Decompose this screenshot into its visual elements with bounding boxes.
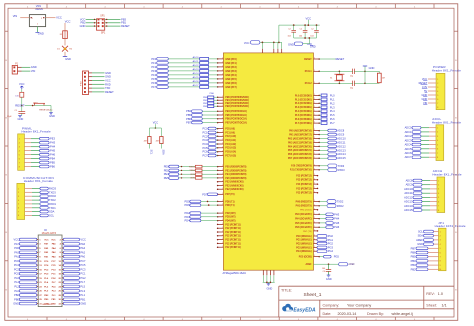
- svg-text:PE2 (AIN0/XCK0): PE2 (AIN0/XCK0): [225, 184, 243, 187]
- svg-text:SCL: SCL: [149, 150, 152, 155]
- svg-text:1: 1: [222, 82, 223, 84]
- svg-text:PC5: PC5: [80, 263, 86, 267]
- svg-text:PL5 (OC55/DIG): PL5 (OC55/DIG): [295, 115, 312, 117]
- svg-text:1: 1: [314, 149, 315, 151]
- svg-text:PL4: PL4: [14, 280, 19, 284]
- svg-text:PD7 (T0): PD7 (T0): [225, 194, 234, 196]
- svg-text:1: 1: [314, 106, 315, 108]
- svg-text:ADC11: ADC11: [404, 191, 413, 195]
- svg-text:PD6: PD6: [185, 203, 191, 207]
- svg-text:1: 1: [222, 204, 223, 206]
- svg-text:1: 1: [222, 86, 223, 88]
- svg-text:PH2 (XCK2): PH2 (XCK2): [300, 210, 312, 212]
- svg-text:1: 1: [314, 178, 315, 180]
- svg-text:ATMega2560-16AU: ATMega2560-16AU: [223, 271, 247, 275]
- svg-text:ADC3: ADC3: [405, 138, 412, 142]
- svg-text:XTAL2: XTAL2: [305, 82, 313, 85]
- svg-text:1: 1: [222, 58, 223, 60]
- svg-text:GND GND: GND GND: [42, 304, 52, 306]
- svg-text:ADC12: ADC12: [404, 195, 413, 199]
- svg-text:PG0 (WR/ALE): PG0 (WR/ALE): [296, 235, 312, 238]
- svg-text:C2: C2: [311, 28, 313, 30]
- svg-text:PG1 (WR/ALE): PG1 (WR/ALE): [296, 239, 312, 242]
- svg-text:PJ2 (PCINT11): PJ2 (PCINT11): [225, 236, 241, 238]
- svg-text:GND: GND: [80, 24, 86, 28]
- svg-text:PL0: PL0: [330, 93, 335, 97]
- svg-text:GND (PF4): GND (PF4): [225, 74, 237, 77]
- svg-text:GND: GND: [288, 42, 294, 46]
- svg-text:PG3: PG3: [328, 245, 334, 249]
- svg-text:1: 1: [222, 238, 223, 240]
- svg-text:4: 4: [438, 193, 439, 195]
- svg-text:4: 4: [19, 150, 20, 152]
- svg-text:1: 1: [222, 154, 223, 156]
- svg-text:VIN: VIN: [13, 14, 18, 18]
- svg-text:PE3: PE3: [50, 137, 55, 141]
- svg-text:PE2 (AIN0/XCK0): PE2 (AIN0/XCK0): [225, 181, 243, 184]
- svg-text:ADC15: ADC15: [404, 208, 413, 212]
- svg-text:1: 1: [281, 51, 282, 53]
- svg-text:PL3: PL3: [80, 289, 85, 293]
- svg-text:PB4: PB4: [411, 259, 416, 263]
- svg-text:RXD3: RXD3: [338, 168, 345, 172]
- svg-text:ADC9: ADC9: [337, 133, 344, 137]
- svg-text:5: 5: [437, 144, 438, 146]
- svg-text:PC3: PC3: [202, 138, 208, 142]
- svg-text:PC0: PC0: [202, 127, 208, 131]
- svg-text:PC3: PC3: [80, 267, 86, 271]
- svg-text:PC0: PC0: [14, 272, 20, 276]
- svg-text:PH5 (OC4A/PC): PH5 (OC4A/PC): [295, 222, 312, 225]
- svg-text:1M: 1M: [382, 78, 385, 80]
- svg-text:GND: GND: [49, 114, 55, 118]
- svg-text:PJ2 (PCINT11): PJ2 (PCINT11): [225, 224, 241, 226]
- svg-text:PE5: PE5: [164, 176, 169, 180]
- svg-text:2: 2: [18, 192, 19, 194]
- svg-text:PC5: PC5: [202, 146, 208, 150]
- svg-text:PJ1 (TXD3/PCINT10): PJ1 (TXD3/PCINT10): [290, 170, 312, 172]
- svg-text:PB3: PB3: [411, 263, 416, 267]
- svg-text:PG5 (OC0B): PG5 (OC0B): [299, 257, 312, 259]
- svg-text:EasyEDA: EasyEDA: [293, 308, 316, 314]
- svg-text:1: 1: [314, 94, 315, 96]
- svg-text:1: 1: [262, 51, 263, 53]
- svg-text:1: 1: [314, 222, 315, 224]
- svg-text:GND: GND: [369, 66, 375, 70]
- svg-text:PL4 (OC54/DIG): PL4 (OC54/DIG): [295, 110, 312, 113]
- svg-text:PD4: PD4: [185, 219, 191, 223]
- svg-text:5: 5: [440, 248, 441, 250]
- svg-text:PK2 (ADC10/PCINT18): PK2 (ADC10/PCINT18): [288, 137, 312, 140]
- svg-text:1: 1: [314, 157, 315, 159]
- svg-text:PK7 (ADC15/PCINT23): PK7 (ADC15/PCINT23): [288, 157, 312, 160]
- svg-text:PL7: PL7: [330, 121, 335, 125]
- svg-text:1: 1: [222, 99, 223, 101]
- svg-text:ADC11: ADC11: [337, 140, 346, 144]
- svg-text:7: 7: [437, 153, 438, 155]
- svg-text:Header 8X1_Female: Header 8X1_Female: [432, 120, 461, 124]
- svg-text:ADC13: ADC13: [337, 148, 346, 152]
- svg-text:PA1: PA1: [14, 255, 19, 259]
- svg-text:PH5: PH5: [50, 149, 56, 153]
- svg-text:1: 1: [314, 208, 315, 210]
- svg-text:ADC2: ADC2: [193, 64, 200, 67]
- svg-text:1: 1: [222, 215, 223, 217]
- svg-text:7: 7: [440, 257, 441, 259]
- svg-text:3: 3: [18, 196, 19, 198]
- svg-text:ADC7: ADC7: [193, 84, 200, 87]
- svg-text:PD4 (INT): PD4 (INT): [225, 220, 235, 223]
- svg-text:2: 2: [437, 132, 438, 134]
- svg-text:104: 104: [299, 36, 302, 38]
- svg-text:PE2 (AIN0/XCK0): PE2 (AIN0/XCK0): [225, 188, 243, 191]
- svg-text:6: 6: [438, 201, 439, 203]
- svg-text:1: 1: [314, 58, 315, 60]
- svg-text:22p: 22p: [350, 75, 353, 77]
- svg-text:PH3: PH3: [50, 141, 56, 145]
- svg-text:TXD2: TXD2: [49, 198, 56, 202]
- svg-text:PL2 (OC52/DIG): PL2 (OC52/DIG): [295, 103, 312, 105]
- svg-text:PL0: PL0: [14, 289, 19, 293]
- svg-text:1: 1: [222, 188, 223, 190]
- svg-text:PA7: PA7: [14, 242, 19, 246]
- svg-text:PC6 (A14): PC6 (A14): [225, 151, 236, 154]
- svg-text:VCC: VCC: [80, 238, 86, 242]
- svg-text:PJ3 (PCINT12): PJ3 (PCINT12): [296, 176, 312, 178]
- svg-text:PD3 (INT): PD3 (INT): [225, 217, 235, 219]
- svg-text:PK0 (ADC8/PCINT16): PK0 (ADC8/PCINT16): [289, 130, 312, 133]
- svg-text:1: 1: [222, 74, 223, 76]
- svg-text:SDA: SDA: [161, 150, 164, 155]
- svg-text:ADC10: ADC10: [337, 137, 346, 141]
- svg-text:PH5: PH5: [334, 221, 340, 225]
- svg-text:GND: GND: [31, 65, 37, 69]
- svg-text:PG3 (WR/ALE): PG3 (WR/ALE): [296, 246, 312, 249]
- svg-text:1: 1: [222, 146, 223, 148]
- svg-text:VCC: VCC: [19, 82, 25, 86]
- svg-text:1: 1: [222, 139, 223, 141]
- svg-text:8: 8: [18, 215, 19, 217]
- svg-text:PB6 (PCINT6/OC2A): PB6 (PCINT6/OC2A): [225, 118, 247, 121]
- svg-text:PD2: PD2: [185, 211, 191, 215]
- svg-text:PC7 (A15): PC7 (A15): [225, 154, 236, 157]
- svg-text:PJ3 (PCINT12): PJ3 (PCINT12): [296, 180, 312, 182]
- svg-text:RESET: RESET: [336, 57, 345, 61]
- svg-text:1: 1: [222, 212, 223, 214]
- svg-text:8: 8: [438, 210, 439, 212]
- svg-text:1: 1: [222, 110, 223, 112]
- svg-text:Your Company: Your Company: [347, 304, 371, 308]
- svg-text:PB3 (PCINT3/SS/SCK): PB3 (PCINT3/SS/SCK): [225, 106, 249, 108]
- svg-text:1: 1: [222, 173, 223, 175]
- svg-text:1: 1: [314, 174, 315, 176]
- svg-text:4: 4: [437, 140, 438, 142]
- svg-text:PK4 (ADC12/PCINT20): PK4 (ADC12/PCINT20): [288, 145, 312, 148]
- svg-text:1: 1: [222, 114, 223, 116]
- svg-text:1: 1: [314, 242, 315, 244]
- svg-text:1: 1: [222, 135, 223, 137]
- svg-text:ADC14: ADC14: [404, 204, 413, 208]
- svg-text:PC6: PC6: [14, 259, 20, 263]
- svg-text:C2: C2: [300, 28, 302, 30]
- svg-text:2: 2: [37, 24, 38, 26]
- svg-text:VCC: VCC: [80, 17, 86, 21]
- svg-text:GND: GND: [105, 75, 111, 79]
- svg-text:ADC0: ADC0: [193, 56, 200, 59]
- svg-text:PL4: PL4: [330, 109, 335, 113]
- svg-text:1: 1: [314, 230, 315, 232]
- svg-text:1: 1: [314, 145, 315, 147]
- svg-text:PL7: PL7: [80, 280, 85, 284]
- svg-text:PF7: PF7: [151, 85, 156, 89]
- svg-text:78M05: 78M05: [35, 7, 44, 11]
- svg-text:PG1: PG1: [328, 238, 334, 242]
- svg-text:PC2: PC2: [14, 267, 20, 271]
- svg-text:RESET: RESET: [121, 24, 130, 28]
- svg-text:1: 1: [314, 217, 315, 219]
- svg-text:PK5 (ADC13/PCINT21): PK5 (ADC13/PCINT21): [288, 149, 312, 152]
- svg-text:ADC8: ADC8: [337, 129, 344, 133]
- svg-text:ADC9: ADC9: [406, 183, 413, 187]
- svg-text:TXD0: TXD0: [189, 170, 195, 172]
- svg-text:PD7: PD7: [202, 192, 208, 196]
- svg-text:3: 3: [438, 189, 439, 191]
- svg-text:PL7 (OC57/DIG): PL7 (OC57/DIG): [295, 123, 312, 125]
- svg-text:1: 1: [222, 193, 223, 195]
- svg-text:1: 1: [314, 246, 315, 248]
- svg-text:PJ0 (TXD3/PCINT9): PJ0 (TXD3/PCINT9): [291, 166, 312, 168]
- svg-text:GND: GND: [13, 302, 19, 306]
- svg-text:SP1: SP1: [100, 16, 105, 18]
- svg-text:4: 4: [437, 91, 438, 93]
- svg-text:1: 1: [222, 246, 223, 248]
- svg-text:PL5: PL5: [80, 285, 85, 289]
- svg-text:ADC3: ADC3: [193, 68, 200, 71]
- svg-text:PH6 (OC4A/PC): PH6 (OC4A/PC): [295, 226, 312, 229]
- svg-text:PA3: PA3: [14, 250, 19, 254]
- svg-text:1: 1: [222, 180, 223, 182]
- svg-text:GND (PF1): GND (PF1): [225, 63, 237, 65]
- svg-text:RXD: RXD: [105, 82, 111, 86]
- svg-text:AREF: AREF: [305, 263, 312, 266]
- svg-text:1: 1: [222, 96, 223, 98]
- svg-text:1: 1: [222, 127, 223, 129]
- svg-text:GND: GND: [18, 117, 24, 121]
- svg-text:GND (PF2): GND (PF2): [225, 67, 237, 69]
- svg-text:6: 6: [437, 99, 438, 101]
- svg-text:7: 7: [19, 162, 20, 164]
- svg-text:1: 1: [438, 180, 439, 182]
- svg-text:INT5: INT5: [190, 178, 196, 180]
- svg-text:1: 1: [222, 231, 223, 233]
- svg-text:2: 2: [437, 83, 438, 85]
- svg-text:PL1: PL1: [80, 293, 85, 297]
- svg-text:PD2 (INT): PD2 (INT): [225, 213, 235, 215]
- svg-text:ADC1: ADC1: [405, 130, 412, 134]
- svg-text:SDA: SDA: [418, 234, 424, 238]
- svg-text:PG4: PG4: [328, 249, 334, 253]
- svg-text:VCC: VCC: [56, 16, 62, 20]
- svg-text:PB2 (PCINT2/SS/SCK): PB2 (PCINT2/SS/SCK): [225, 103, 249, 105]
- svg-text:PC1: PC1: [80, 272, 86, 276]
- svg-text:GND (PF7): GND (PF7): [225, 87, 237, 89]
- svg-text:PB5: PB5: [411, 255, 416, 259]
- svg-text:PF1: PF1: [151, 61, 156, 65]
- svg-text:PB2: PB2: [411, 267, 416, 271]
- svg-text:2: 2: [440, 236, 441, 238]
- svg-text:PL2: PL2: [14, 285, 19, 289]
- svg-text:PJ2 (PCINT11): PJ2 (PCINT11): [225, 240, 241, 242]
- svg-text:1: 1: [222, 70, 223, 72]
- svg-text:GND: GND: [65, 57, 71, 61]
- svg-text:PC3 (A11): PC3 (A11): [225, 139, 236, 142]
- svg-text:PB7: PB7: [411, 246, 416, 250]
- svg-text:1: 1: [314, 82, 315, 84]
- svg-text:PL3 (OC53/DIG): PL3 (OC53/DIG): [295, 107, 312, 109]
- svg-text:Company:: Company:: [323, 304, 340, 308]
- svg-text:5: 5: [437, 95, 438, 97]
- svg-text:PF2: PF2: [151, 65, 156, 69]
- svg-text:GND (PF5): GND (PF5): [225, 79, 237, 81]
- svg-text:2: 2: [19, 143, 20, 145]
- svg-text:VIN: VIN: [31, 69, 35, 73]
- svg-text:Date:: Date:: [323, 312, 332, 316]
- svg-text:22p: 22p: [350, 87, 353, 89]
- svg-text:PJ3 (PCINT12): PJ3 (PCINT12): [296, 188, 312, 190]
- svg-text:ADC14: ADC14: [337, 152, 346, 156]
- svg-text:10: 10: [439, 269, 441, 271]
- svg-text:TXD1: TXD1: [49, 206, 56, 210]
- svg-text:SCL: SCL: [418, 230, 424, 234]
- svg-text:5: 5: [438, 197, 439, 199]
- svg-text:1: 1: [314, 114, 315, 116]
- svg-text:PG2: PG2: [328, 242, 334, 246]
- svg-text:2020-03-14: 2020-03-14: [338, 312, 357, 316]
- svg-text:PB7: PB7: [186, 121, 191, 125]
- svg-text:SDA: SDA: [49, 210, 55, 214]
- svg-text:GND: GND: [267, 287, 273, 291]
- svg-text:PE1: PE1: [164, 168, 169, 172]
- svg-text:3: 3: [440, 240, 441, 242]
- svg-text:1: 1: [277, 51, 278, 53]
- svg-text:1: 1: [222, 227, 223, 229]
- svg-text:Header 8X1_Female: Header 8X1_Female: [22, 130, 51, 134]
- svg-text:PB5 (PCINT5/OC2A): PB5 (PCINT5/OC2A): [225, 114, 247, 117]
- svg-text:PD6 (T1): PD6 (T1): [225, 205, 234, 207]
- svg-text:1: 1: [314, 200, 315, 202]
- svg-text:RXD1: RXD1: [49, 202, 56, 206]
- svg-text:PB4: PB4: [186, 109, 191, 113]
- svg-text:1: 1: [222, 105, 223, 107]
- svg-text:Drawn By:: Drawn By:: [367, 312, 384, 316]
- svg-text:1: 1: [314, 153, 315, 155]
- svg-text:1: 1: [222, 121, 223, 123]
- svg-text:PB1 (PCINT1/SS/SCK): PB1 (PCINT1/SS/SCK): [225, 100, 249, 102]
- svg-text:PD5: PD5: [185, 199, 191, 203]
- svg-text:PB6: PB6: [186, 117, 191, 121]
- svg-text:PE0 (RXD0/PCINT8): PE0 (RXD0/PCINT8): [225, 167, 246, 169]
- svg-text:PB3: PB3: [121, 17, 126, 21]
- svg-text:SP1: SP1: [101, 33, 106, 35]
- svg-text:PC4: PC4: [202, 142, 208, 146]
- svg-text:PD5 (T1): PD5 (T1): [225, 201, 234, 203]
- svg-text:PK6 (ADC14/PCINT22): PK6 (ADC14/PCINT22): [288, 153, 312, 156]
- svg-text:PL5: PL5: [330, 113, 335, 117]
- svg-text:PC6: PC6: [202, 150, 208, 154]
- svg-text:PG4 (WR/ALE): PG4 (WR/ALE): [296, 250, 312, 253]
- svg-text:RXD2: RXD2: [49, 194, 56, 198]
- svg-text:ADC0: ADC0: [405, 126, 412, 130]
- svg-text:ADC15: ADC15: [337, 156, 346, 160]
- svg-text:1: 1: [222, 219, 223, 221]
- svg-text:5: 5: [19, 154, 20, 156]
- svg-text:PB5: PB5: [186, 113, 191, 117]
- svg-text:1: 1: [222, 102, 223, 104]
- svg-text:PH6: PH6: [334, 225, 340, 229]
- svg-text:1: 1: [314, 137, 315, 139]
- svg-text:ADC8: ADC8: [406, 179, 413, 183]
- svg-text:104: 104: [310, 36, 313, 38]
- svg-text:1: 1: [314, 183, 315, 185]
- svg-text:Header 10X1_Female: Header 10X1_Female: [435, 224, 466, 228]
- svg-text:TXD2: TXD2: [337, 200, 344, 204]
- svg-text:4: 4: [440, 244, 441, 246]
- svg-text:PB6: PB6: [50, 165, 55, 169]
- svg-text:GND (PF3): GND (PF3): [225, 71, 237, 73]
- svg-text:1: 1: [222, 78, 223, 80]
- svg-text:PA5: PA5: [14, 246, 19, 250]
- svg-text:PH4: PH4: [334, 217, 340, 221]
- svg-text:104: 104: [288, 36, 291, 38]
- svg-text:ADC4: ADC4: [193, 72, 200, 75]
- svg-text:7: 7: [438, 206, 439, 208]
- svg-text:PH7 (T4): PH7 (T4): [303, 231, 312, 233]
- svg-text:3: 3: [19, 147, 20, 149]
- svg-text:PH4: PH4: [50, 145, 56, 149]
- svg-text:7: 7: [18, 211, 19, 213]
- svg-text:PE4 (RXD0/PCINT8): PE4 (RXD0/PCINT8): [225, 173, 246, 176]
- svg-text:1: 1: [314, 191, 315, 193]
- svg-text:INT4: INT4: [190, 174, 196, 176]
- svg-text:PC1: PC1: [202, 130, 208, 134]
- svg-text:RXD0: RXD0: [189, 166, 196, 168]
- svg-text:RXD3: RXD3: [49, 187, 56, 191]
- svg-text:PF3: PF3: [151, 69, 156, 73]
- svg-text:REV:: REV:: [426, 292, 434, 296]
- svg-text:VCC: VCC: [305, 16, 311, 20]
- svg-text:PL3: PL3: [330, 105, 335, 109]
- svg-text:PC0 (A8): PC0 (A8): [225, 128, 235, 131]
- svg-text:1: 1: [314, 250, 315, 252]
- svg-text:1: 1: [314, 255, 315, 257]
- svg-text:TXD3: TXD3: [49, 190, 56, 194]
- svg-text:PK3 (ADC11/PCINT19): PK3 (ADC11/PCINT19): [288, 141, 312, 144]
- svg-text:GND (PF0): GND (PF0): [225, 59, 237, 61]
- svg-text:VCC: VCC: [153, 122, 158, 125]
- svg-text:C2: C2: [288, 28, 290, 30]
- svg-text:PG0: PG0: [328, 234, 334, 238]
- svg-text:PF5: PF5: [151, 77, 156, 81]
- svg-text:PH4 (OC4A/PC): PH4 (OC4A/PC): [295, 218, 312, 221]
- svg-text:white.angel.lj: white.angel.lj: [392, 312, 413, 316]
- svg-text:VCC: VCC: [244, 41, 250, 45]
- svg-text:PG5: PG5: [334, 255, 340, 259]
- svg-text:PC7: PC7: [202, 154, 208, 158]
- svg-text:PB0 (PCINT0/SS/SCK): PB0 (PCINT0/SS/SCK): [225, 97, 249, 99]
- svg-text:PC5 (A13): PC5 (A13): [225, 147, 236, 150]
- svg-text:ADC13: ADC13: [404, 200, 413, 204]
- svg-text:GND: GND: [80, 302, 86, 306]
